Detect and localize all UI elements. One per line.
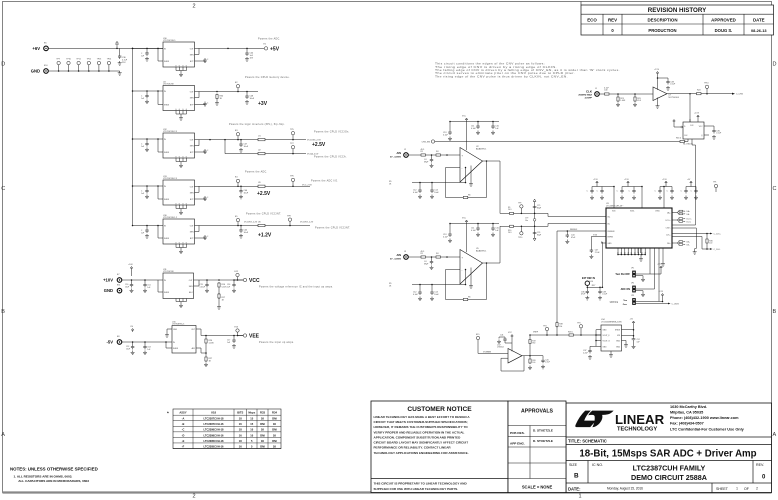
ferrite bead U6 (258, 224, 265, 226)
zone marker B right (773, 309, 777, 315)
svg-text:Milpitas, CA 95035: Milpitas, CA 95035 (670, 411, 703, 415)
REFIN vertical to EXT REF (601, 242, 602, 287)
svg-text:10uF: 10uF (244, 146, 249, 148)
ADC decoupling caps (587, 179, 718, 208)
U2 output to ADC (500, 161, 601, 217)
CLK input network (599, 87, 653, 106)
zone marker D right (773, 62, 777, 68)
svg-text:Powers the input op amps.: Powers the input op amps. (259, 341, 294, 344)
svg-text:2: 2 (756, 487, 758, 491)
svg-text:TP11: TP11 (76, 59, 80, 61)
svg-text:+2.5V: +2.5V (654, 69, 660, 71)
svg-text:SUPPLIED FOR USE WITH LINEAR T: SUPPLIED FOR USE WITH LINEAR TECHNOLOGY … (374, 487, 459, 491)
svg-text:HOWEVER, IT REMAINS THE CUSTOM: HOWEVER, IT REMAINS THE CUSTOMER'S RESPO… (374, 425, 469, 429)
+3V output net (195, 76, 290, 107)
svg-text:DNI: DNI (272, 439, 277, 443)
svg-text:DNI: DNI (260, 422, 265, 426)
svg-text:+2.5V: +2.5V (312, 142, 326, 148)
svg-text:1.00K: 1.00K (620, 100, 626, 102)
svg-text:10n: 10n (525, 220, 528, 222)
svg-text:49.9: 49.9 (637, 100, 641, 102)
svg-text:REFBUF: REFBUF (570, 229, 578, 231)
svg-text:OF: OF (744, 487, 750, 491)
svg-text:PCB DES.: PCB DES. (510, 431, 525, 435)
svg-text:C41: C41 (500, 335, 503, 337)
svg-text:+3V: +3V (258, 101, 268, 107)
svg-text:+6V: +6V (32, 46, 40, 51)
zone marker 2 bottom (192, 494, 195, 500)
svg-text:APPROVED: APPROVED (711, 18, 736, 23)
U17 output node (522, 334, 551, 369)
U2 input network (408, 149, 460, 168)
svg-text:NC7SVU04: NC7SVU04 (669, 97, 680, 99)
VCC output net (194, 271, 334, 309)
notes (10, 467, 98, 483)
svg-text:VCC_2.5V: VCC_2.5V (302, 184, 312, 186)
ferrite bead U9 (258, 185, 265, 187)
regulator U15 LT1964ES5-5 (VEE) (122, 321, 196, 354)
ferrite bead U1 (258, 138, 265, 140)
svg-text:A: A (773, 432, 777, 438)
svg-text:Fax: (408)434-0507: Fax: (408)434-0507 (670, 422, 704, 426)
CNV output net (667, 83, 744, 96)
svg-text:100: 100 (709, 243, 712, 245)
terminal E7 +10V (103, 274, 122, 283)
svg-text:LT1763CS8-5: LT1763CS8-5 (163, 40, 176, 42)
U2 supply rail (443, 116, 499, 187)
svg-text:C: C (1, 186, 5, 192)
svg-text:TITLE: SCHEMATIC: TITLE: SCHEMATIC (568, 439, 607, 444)
svg-text:IC NO.: IC NO. (592, 463, 603, 467)
svg-text:TP10: TP10 (704, 83, 709, 85)
svg-text:18-Bit, 15Msps SAR ADC + Drive: 18-Bit, 15Msps SAR ADC + Driver Amp (579, 448, 756, 459)
op-amp U17 (478, 332, 522, 363)
svg-text:TP13: TP13 (97, 59, 102, 61)
svg-text:REFIN: REFIN (608, 237, 614, 239)
svg-text:+2.5V: +2.5V (694, 113, 700, 115)
svg-text:REFBUF: REFBUF (608, 231, 616, 233)
svg-text:10uF: 10uF (244, 232, 249, 234)
svg-text:LT6654: LT6654 (497, 347, 505, 349)
svg-text:LT1763CS8: LT1763CS8 (163, 84, 174, 86)
svg-text:C_CLK+: C_CLK+ (714, 233, 722, 235)
svg-text:DATE: DATE (753, 18, 765, 23)
svg-text:VEE: VEE (249, 334, 260, 340)
svg-text:IN+: IN+ (608, 216, 611, 218)
+6V vertical bus (132, 48, 134, 225)
zone marker D left (1, 62, 5, 68)
svg-text:-F: -F (182, 444, 185, 448)
svg-text:+5V: +5V (270, 46, 280, 52)
svg-text:DA-: DA- (687, 213, 690, 216)
svg-text:LTC2387CUH-16: LTC2387CUH-16 (204, 422, 225, 426)
svg-text:DA+: DA+ (687, 210, 691, 213)
svg-text:+2.5V: +2.5V (257, 191, 271, 197)
VEE output net (196, 326, 294, 366)
approvals box (508, 401, 566, 493)
svg-text:J2: J2 (404, 149, 406, 151)
reference U14 LTC6655 (583, 319, 623, 359)
svg-text:VCCINT_1.2V: VCCINT_1.2V (300, 222, 314, 224)
CNV conditioning notes (435, 63, 620, 79)
terminal J2 AIN (390, 149, 408, 159)
svg-text:-B: -B (182, 422, 185, 426)
svg-text:49.9: 49.9 (421, 149, 425, 151)
ADC bottom control pins (650, 248, 665, 302)
svg-text:+1.2V: +1.2V (258, 233, 272, 239)
svg-text:TECHNOLOGY: TECHNOLOGY (617, 427, 657, 433)
terminal E10 GND (31, 65, 49, 73)
svg-text:AIN: AIN (397, 151, 402, 155)
svg-text:08-26-13: 08-26-13 (751, 28, 767, 33)
svg-text:LT1964ES5-5: LT1964ES5-5 (172, 324, 185, 326)
regulator U11 LT1763CS8 (VCC) (122, 264, 199, 308)
EXT REF IN (581, 277, 608, 300)
svg-text:2.2uF: 2.2uF (583, 352, 589, 354)
svg-text:JP2: JP2 (631, 283, 634, 285)
svg-text:0.1uF: 0.1uF (413, 192, 419, 194)
svg-text:+10V: +10V (103, 278, 113, 283)
svg-text:+10V: +10V (128, 264, 133, 266)
svg-text:LTC2387CUH FAMILY: LTC2387CUH FAMILY (633, 464, 706, 473)
chassis gnd above rail (115, 42, 119, 49)
svg-text:Powers the ADC.: Powers the ADC. (245, 171, 267, 174)
capacitor column C75/C79/C76 (525, 199, 542, 241)
svg-text:PRODUCTION: PRODUCTION (648, 28, 676, 33)
svg-text:THIS CIRCUIT IS PROPRIETARY TO: THIS CIRCUIT IS PROPRIETARY TO LINEAR TE… (374, 482, 468, 486)
flip-flop Q to ADC CNV (692, 135, 709, 225)
svg-text:GND: GND (173, 329, 178, 331)
svg-text:TP14: TP14 (107, 59, 112, 61)
svg-text:SHDN: SHDN (164, 61, 170, 63)
flip-flop U8 NL17SZ74 (683, 94, 704, 146)
svg-text:TECHNOLOGY APPLICATIONS ENGINE: TECHNOLOGY APPLICATIONS ENGINEERING FOR … (374, 451, 469, 455)
jumper JP1 Test Pat OFF (615, 264, 662, 282)
svg-text:Powers the CPLD VCCA.: Powers the CPLD VCCA. (314, 156, 347, 159)
svg-text:GND: GND (104, 288, 113, 293)
assembly options table (167, 409, 281, 449)
terminal E8 -5V (106, 336, 121, 345)
svg-text:Powers the CPLD VCCINT.: Powers the CPLD VCCINT. (246, 213, 281, 216)
regulator U10 LT1763CS8-5 (132, 38, 209, 77)
svg-text:R6: R6 (468, 297, 470, 299)
svg-text:A: A (1, 432, 5, 438)
svg-text:D. STUETZLE: D. STUETZLE (533, 429, 553, 433)
svg-text:VCMMIN: VCMMIN (483, 351, 492, 353)
terminal J3 AIN (390, 251, 408, 261)
zone marker 2 top (192, 4, 195, 10)
svg-text:2: 2 (192, 4, 195, 10)
svg-text:200MHz MAX: 200MHz MAX (578, 94, 592, 97)
svg-text:VERIFY PROPER AND RELIABLE OPE: VERIFY PROPER AND RELIABLE OPERATION IN … (374, 430, 465, 434)
company address (670, 405, 745, 432)
svg-text:D: D (773, 62, 777, 68)
VREF node wires (530, 231, 601, 336)
REFBUF cap C44 (557, 229, 601, 244)
terminal E15 (476, 334, 480, 340)
svg-text:-E: -E (182, 439, 185, 443)
svg-text:ALL CAPACITORS ARE IN MICROFAR: ALL CAPACITORS ARE IN MICROFARADS, 0603 (18, 479, 89, 483)
svg-text:LTC2387CUH-18: LTC2387CUH-18 (204, 417, 225, 421)
svg-text:0V - 4.096V: 0V - 4.096V (390, 258, 402, 261)
svg-text:LT1763CS8-2.5: LT1763CS8-2.5 (163, 178, 178, 180)
svg-text:Powers the CPLD VCCIOs.: Powers the CPLD VCCIOs. (314, 131, 350, 134)
svg-text:0.1uF: 0.1uF (443, 134, 449, 136)
flip-flop VCC + cap C30 (694, 113, 722, 140)
svg-text:1: 1 (736, 487, 738, 491)
+2.5V ADC output net (195, 171, 339, 199)
svg-text:-D: -D (182, 433, 185, 437)
svg-text:R16 0: R16 0 (676, 137, 681, 139)
svg-text:LTC2387CUH-18 *: LTC2387CUH-18 * (606, 206, 623, 208)
svg-text:1.00K: 1.00K (209, 342, 215, 344)
GND rail wire (48, 70, 119, 72)
svg-text:LTC6655BHMS8-4.096: LTC6655BHMS8-4.096 (601, 322, 623, 324)
svg-text:GND: GND (608, 243, 613, 245)
svg-text:+2.5V: +2.5V (624, 179, 630, 181)
svg-text:R1: R1 (421, 151, 423, 153)
Linear Technology logo (575, 411, 664, 433)
ferrite bead U2 branch (225, 140, 258, 154)
svg-text:C_CNV: C_CNV (736, 94, 744, 96)
turret TP10 (66, 59, 71, 72)
svg-text:10uF: 10uF (250, 98, 255, 100)
svg-text:24.9: 24.9 (508, 232, 512, 234)
svg-text:DCO-: DCO- (687, 221, 692, 223)
+6V rail wire (48, 48, 163, 50)
svg-text:LINEAR TECHNOLOGY HAS MADE A B: LINEAR TECHNOLOGY HAS MADE A BEST EFFORT… (374, 415, 471, 419)
svg-text:Phone: (408)432-1900 www.line: Phone: (408)432-1900 www.linear.com (670, 416, 739, 420)
svg-text:GND: GND (616, 341, 621, 343)
regulator U16 LT1763CS8-1.2 (132, 215, 209, 254)
svg-text:DNI: DNI (260, 433, 265, 437)
terminal E6 +6V (32, 43, 48, 51)
svg-text:REVISION HISTORY: REVISION HISTORY (648, 7, 707, 14)
svg-text:VOUT_S: VOUT_S (603, 341, 611, 343)
svg-text:REV.: REV. (756, 463, 764, 467)
zone marker A right (773, 432, 777, 438)
svg-text:LT1763CS8-1.2: LT1763CS8-1.2 (163, 217, 178, 219)
svg-text:LTC2385CUH-18: LTC2385CUH-18 (204, 439, 225, 443)
svg-text:SHDN: SHDN (173, 348, 179, 350)
svg-text:IN-: IN- (608, 223, 611, 225)
svg-text:R6: R6 (468, 195, 470, 197)
svg-text:0V - 4.096V: 0V - 4.096V (390, 156, 402, 159)
svg-text:Monday, August 15, 2016: Monday, August 15, 2016 (607, 486, 643, 490)
U5 output to ADC (500, 224, 601, 264)
svg-text:10uF: 10uF (244, 193, 249, 195)
svg-text:2.2uF: 2.2uF (595, 252, 601, 254)
zone marker C left (1, 186, 5, 192)
U17 feedback (501, 356, 524, 371)
svg-text:TP10: TP10 (518, 237, 522, 239)
svg-text:2: 2 (192, 494, 195, 500)
svg-text:0.1uF: 0.1uF (443, 236, 449, 238)
svg-text:D: D (1, 62, 5, 68)
svg-text:LTC2386CUH-16: LTC2386CUH-16 (204, 433, 225, 437)
svg-text:BITS: BITS (237, 410, 243, 414)
turret TP12 (87, 59, 92, 72)
ground at GND rail end (118, 71, 122, 75)
svg-text:TP12: TP12 (87, 59, 92, 61)
op-amp U5 ADA4899-1 (460, 248, 487, 284)
svg-text:B: B (1, 309, 5, 315)
svg-text:1K: 1K (261, 439, 264, 443)
svg-text:DB+: DB+ (687, 242, 691, 244)
svg-text:VREF: VREF (533, 332, 539, 334)
svg-text:0.1uF: 0.1uF (471, 128, 477, 130)
svg-text:DB+: DB+ (667, 243, 671, 245)
svg-text:0.1uF: 0.1uF (413, 294, 419, 296)
svg-text:LT1763CS8: LT1763CS8 (163, 271, 174, 273)
turret TP14 (107, 59, 112, 72)
CNV pins to flip-flop wire (677, 225, 697, 254)
svg-text:Powers the voltage reference I: Powers the voltage reference IC and the … (259, 286, 333, 289)
svg-text:CLK: CLK (586, 89, 593, 93)
svg-text:LTC2386CUH-18: LTC2386CUH-18 (204, 428, 225, 432)
svg-text:SHDN: SHDN (164, 238, 170, 240)
zone marker 1 bottom (578, 494, 581, 500)
svg-text:1K: 1K (273, 422, 276, 426)
svg-text:-: - (462, 167, 463, 170)
svg-text:VCC: VCC (508, 332, 513, 334)
svg-text:SHDN: SHDN (164, 292, 170, 294)
svg-text:DCO+: DCO+ (687, 219, 692, 221)
svg-text:R37: R37 (592, 285, 595, 287)
svg-text:49.9: 49.9 (421, 251, 425, 253)
svg-text:SHDN: SHDN (164, 199, 170, 201)
svg-text:AIN: AIN (397, 253, 402, 257)
zone marker B left (1, 309, 5, 315)
svg-text:Powers the ADC I/O.: Powers the ADC I/O. (311, 180, 338, 183)
svg-text:DEMO CIRCUIT 2588A: DEMO CIRCUIT 2588A (631, 473, 707, 482)
svg-text:R18 0: R18 0 (568, 331, 573, 333)
svg-text:CNV_EN: CNV_EN (422, 142, 431, 144)
svg-text:U18: U18 (211, 410, 216, 414)
svg-text:JP1: JP1 (631, 268, 634, 270)
svg-text:930: 930 (532, 343, 535, 345)
svg-text:0.01uF: 0.01uF (200, 286, 206, 288)
svg-text:VCC: VCC (249, 278, 260, 284)
svg-text:1K: 1K (261, 428, 264, 432)
svg-text:Powers the CPLD memory device.: Powers the CPLD memory device. (245, 76, 290, 79)
svg-text:TP10: TP10 (66, 59, 71, 61)
svg-text:VDDL: VDDL (630, 211, 635, 213)
svg-text:SCALE = NONE: SCALE = NONE (522, 485, 553, 490)
svg-text:TP3: TP3 (577, 323, 580, 325)
svg-text:0.1uF: 0.1uF (716, 133, 722, 135)
svg-text:CUSTOMER NOTICE: CUSTOMER NOTICE (407, 406, 472, 413)
U5 input network (408, 251, 460, 270)
svg-text:GND: GND (603, 330, 608, 332)
svg-text:Powers the logic inverters (3P: Powers the logic inverters (3PL), flip-f… (229, 123, 285, 126)
regulator U4 LT1763CS8 (132, 81, 209, 120)
svg-text:0.1uF: 0.1uF (670, 84, 676, 86)
svg-text:ADJ: ADJ (192, 347, 195, 350)
ADC bottom data pins (617, 248, 647, 261)
svg-text:*: * (167, 411, 169, 416)
svg-text:DA+: DA+ (667, 211, 671, 214)
svg-text:OVDD: OVDD (655, 211, 661, 213)
svg-text:SHDN: SHDN (615, 330, 621, 332)
svg-text:C_CLK-: C_CLK- (714, 249, 721, 251)
svg-text:1K: 1K (261, 417, 264, 421)
svg-text:Powers the ADC.: Powers the ADC. (258, 37, 280, 40)
svg-text:APPLICATION. COMPONENT SUBSTI: APPLICATION. COMPONENT SUBSTITUTION AND … (374, 435, 462, 439)
title texts (568, 439, 766, 492)
svg-text:100: 100 (532, 362, 535, 364)
svg-text:0.1uF: 0.1uF (471, 230, 477, 232)
svg-text:DNI: DNI (260, 444, 265, 448)
output pair DB+/DB- (677, 241, 690, 247)
+2.5V dual output net (195, 123, 350, 159)
svg-text:+2.5V: +2.5V (593, 179, 599, 181)
svg-text:Test Pat OFF: Test Pat OFF (615, 273, 630, 276)
svg-text:R4: R4 (436, 151, 438, 153)
output pair DA+/DA- (677, 210, 690, 216)
svg-text:0.1uF: 0.1uF (604, 87, 610, 89)
svg-text:DB-: DB- (687, 244, 690, 246)
svg-text:CIRCUIT BOARD LAYOUT MAY SIGNI: CIRCUIT BOARD LAYOUT MAY SIGNIFICANTLY A… (374, 441, 469, 445)
svg-text:VCCINT_1.2V: VCCINT_1.2V (244, 222, 258, 224)
svg-text:CIRCUIT THAT MEETS CUSTOMER-SU: CIRCUIT THAT MEETS CUSTOMER-SUPPLIED SPE… (374, 420, 468, 424)
svg-text:REV: REV (608, 18, 617, 23)
output pair DCO+/DCO- (677, 218, 692, 224)
svg-text:DESCRIPTION: DESCRIPTION (647, 18, 677, 23)
terminal E11 GND (104, 285, 122, 294)
svg-text:1630 McCarthy Blvd.: 1630 McCarthy Blvd. (670, 405, 707, 409)
svg-text:CNV+: CNV+ (666, 227, 671, 229)
svg-text:ADA4899-1: ADA4899-1 (476, 147, 487, 150)
terminal J1 CLK input (578, 88, 599, 100)
svg-text:LTC2385CUH-16: LTC2385CUH-16 (204, 444, 225, 448)
CNV_EN wire to flip-flop (435, 120, 688, 143)
svg-text:-: - (462, 269, 463, 272)
svg-text:LTC Confidential-For Customer: LTC Confidential-For Customer Use Only (670, 428, 745, 432)
svg-text:SIZE: SIZE (569, 463, 578, 467)
svg-text:TP9: TP9 (518, 202, 521, 204)
turret TP13 (97, 59, 102, 72)
capacitor C36 (118, 48, 128, 65)
svg-text:LT1763CS8-2.5: LT1763CS8-2.5 (163, 131, 178, 133)
svg-text:24.9: 24.9 (508, 209, 512, 211)
svg-text:ADJ: ADJ (189, 291, 192, 294)
svg-text:Powers the CPLD VCCINT.: Powers the CPLD VCCINT. (315, 227, 350, 230)
jumper JP3 Latency (610, 291, 680, 306)
VCM cap C47 (589, 235, 601, 259)
zone marker C right (773, 186, 777, 192)
svg-text:NOTES: UNLESS OTHERWISE SPECIF: NOTES: UNLESS OTHERWISE SPECIFIED (10, 467, 98, 472)
title block (566, 403, 772, 493)
svg-text:R33: R33 (260, 410, 265, 414)
svg-text:SHEET: SHEET (716, 487, 729, 491)
svg-text:1K: 1K (273, 433, 276, 437)
ADC U3 LTC2387CUH-18 (601, 203, 677, 248)
svg-text:R4: R4 (436, 253, 438, 255)
svg-text:GND: GND (603, 346, 608, 348)
svg-text:Latency: Latency (610, 301, 619, 304)
svg-text:R34: R34 (272, 410, 277, 414)
svg-text:ADC ON: ADC ON (621, 288, 631, 291)
svg-text:2.5VPP: 2.5VPP (585, 98, 593, 100)
+1.2V output net (195, 213, 351, 239)
svg-text:APP ENG.: APP ENG. (510, 441, 525, 445)
svg-text:0.1uF: 0.1uF (602, 294, 608, 296)
svg-text:LINEAR: LINEAR (615, 412, 665, 427)
customer notice box (371, 401, 508, 493)
op-amp U2 ADA4899-1 (460, 146, 487, 182)
svg-text:C_LVDS: C_LVDS (672, 303, 680, 305)
